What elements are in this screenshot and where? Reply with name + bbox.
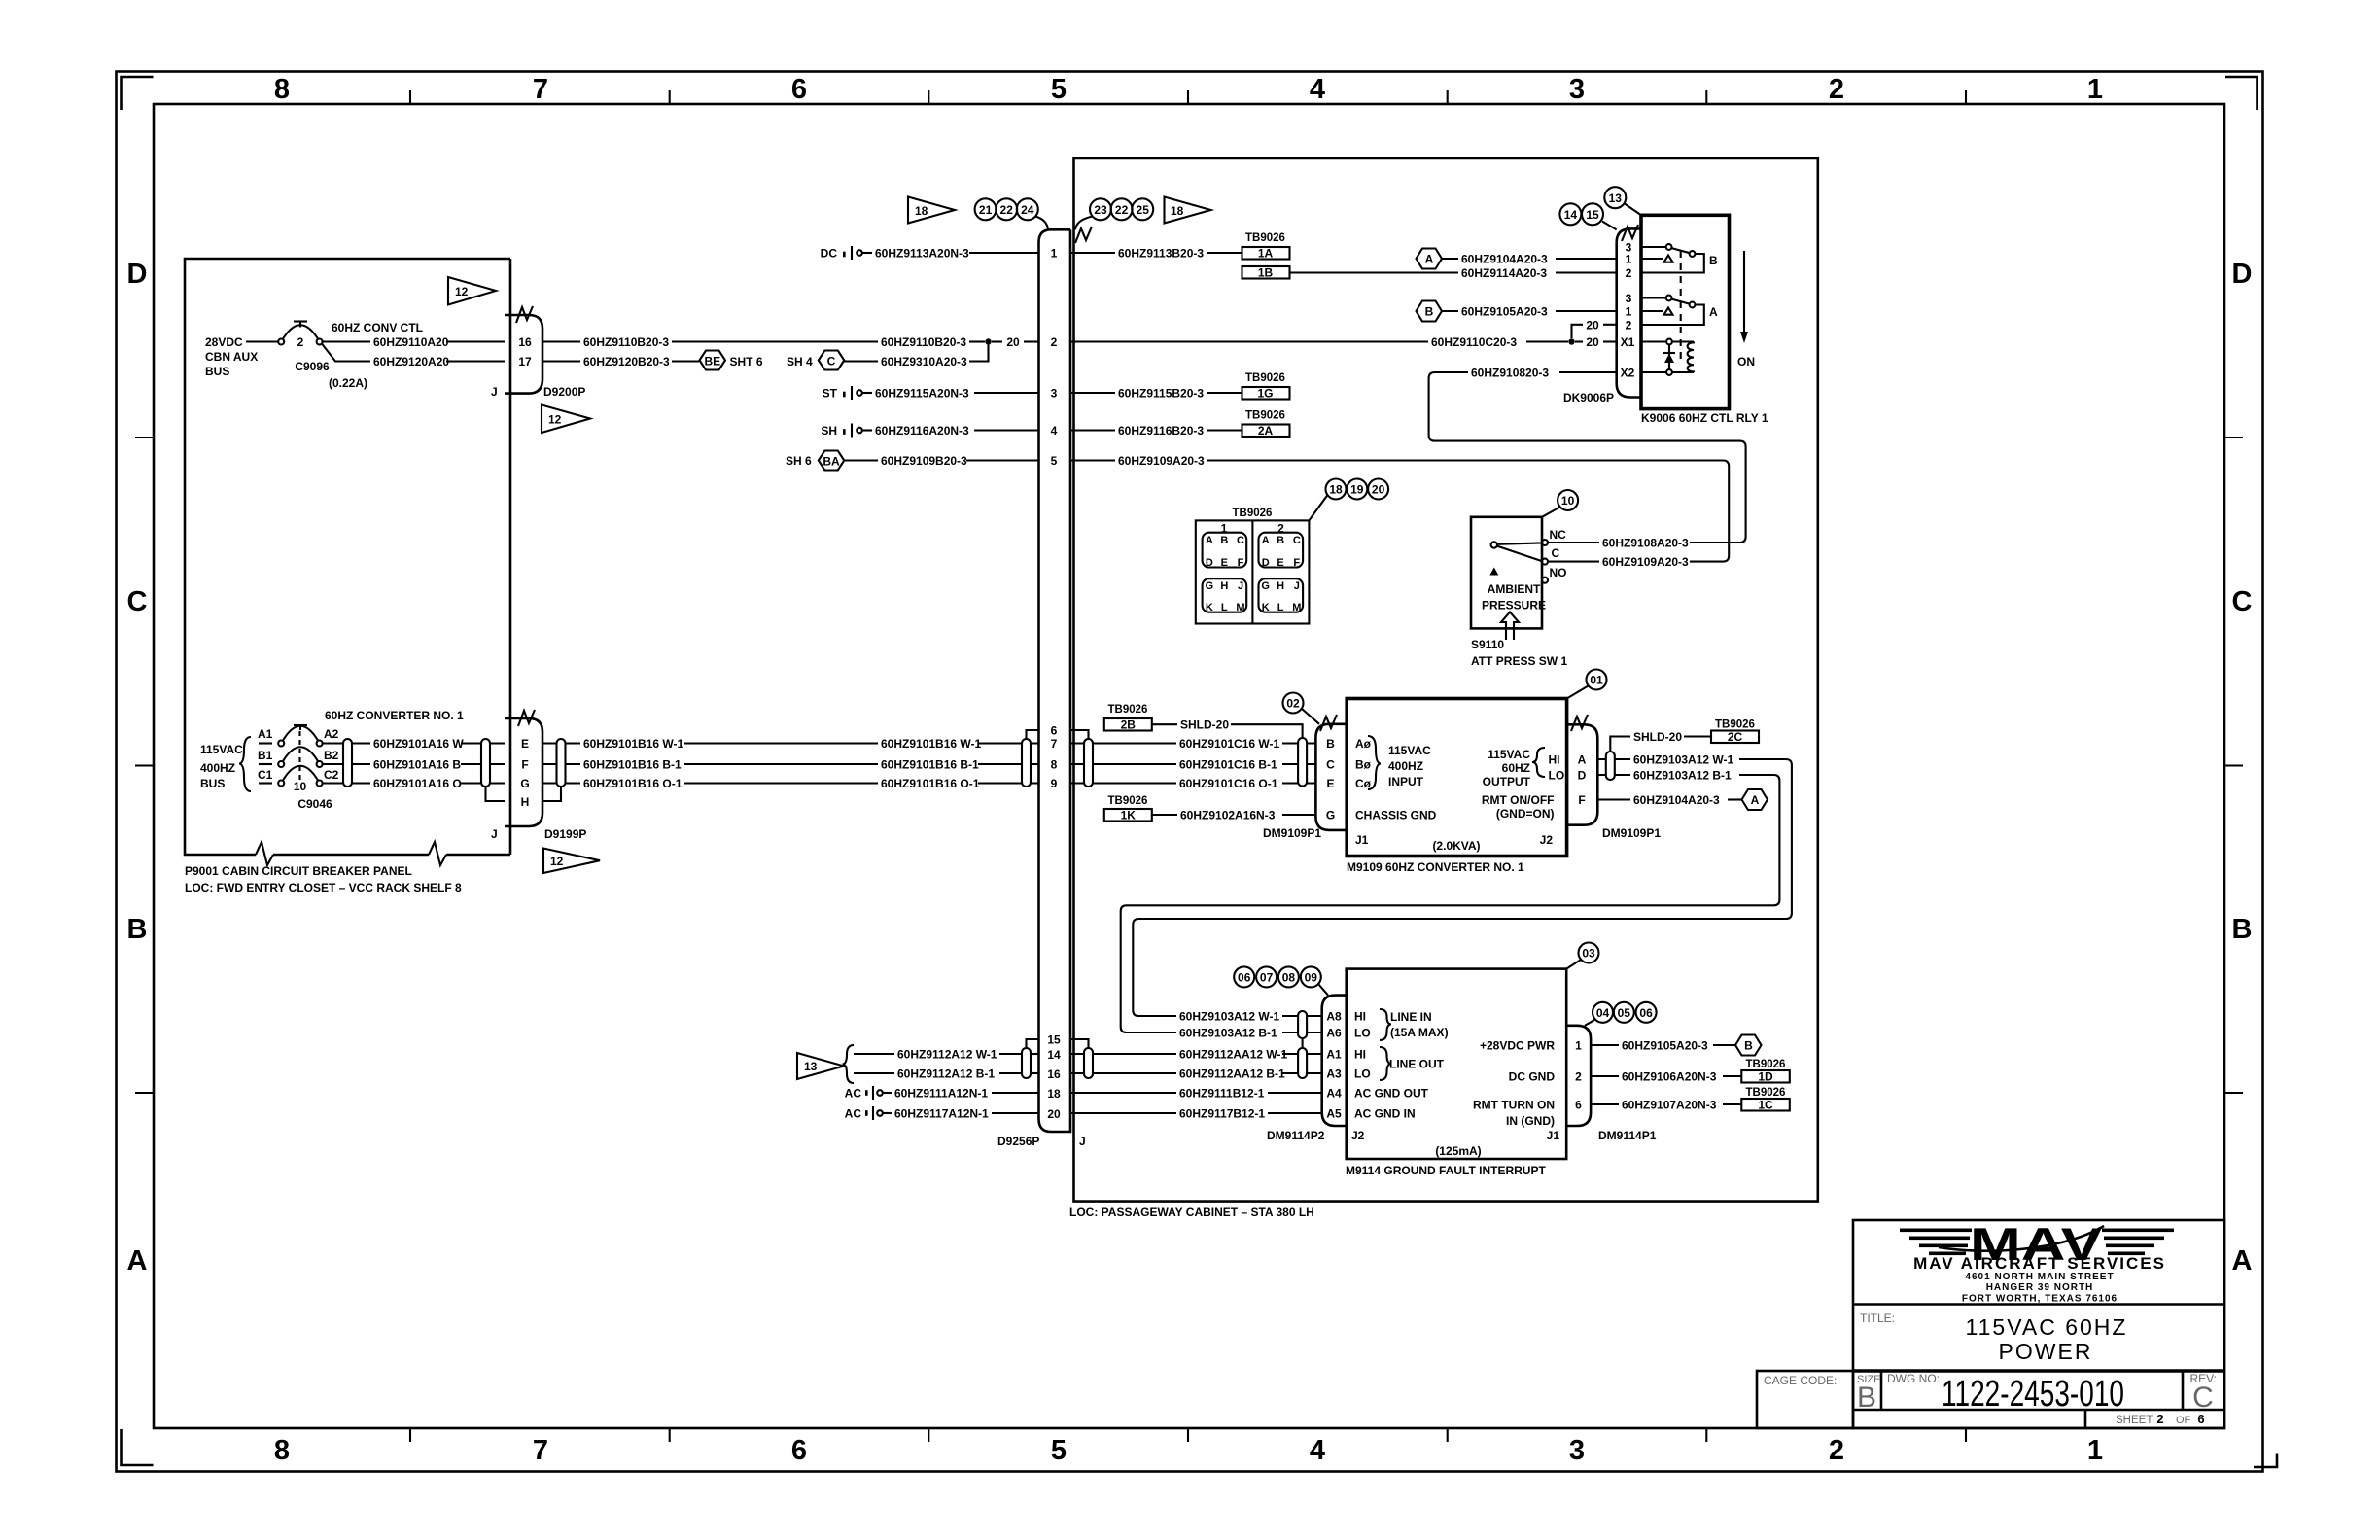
svg-text:60HZ9104A20-3: 60HZ9104A20-3 — [1461, 253, 1548, 266]
svg-text:LO: LO — [1354, 1067, 1371, 1081]
wire 60HZ9105A20-3 pin 1 to hexagon B — [1591, 1044, 1619, 1046]
svg-text:PRESSURE: PRESSURE — [1482, 599, 1546, 612]
break symbol bottom edge left — [256, 842, 273, 865]
svg-text:NC: NC — [1550, 528, 1567, 542]
flag 13 with brace — [797, 1045, 854, 1083]
ref circle 13 — [1604, 187, 1641, 215]
ref circles 18 19 20 — [1309, 479, 1388, 521]
svg-text:F: F — [1293, 557, 1300, 569]
svg-text:C9046: C9046 — [297, 797, 332, 811]
svg-text:18: 18 — [1171, 204, 1184, 218]
svg-text:2B: 2B — [1121, 718, 1137, 732]
relay contact B — [1641, 244, 1718, 272]
svg-text:60HZ9102A16N-3: 60HZ9102A16N-3 — [1180, 809, 1276, 822]
svg-text:6: 6 — [1051, 724, 1058, 738]
svg-text:(2.0KVA): (2.0KVA) — [1432, 839, 1480, 853]
svg-text:D: D — [1206, 557, 1213, 569]
svg-text:60HZ9101B16 B-1: 60HZ9101B16 B-1 — [583, 758, 682, 772]
wire 60HZ9106A20N-3 pin 2 to TB 1D — [1591, 1075, 1619, 1077]
svg-text:J: J — [1238, 580, 1243, 592]
svg-text:A: A — [2232, 1245, 2253, 1277]
svg-text:20: 20 — [1372, 483, 1385, 497]
wire 60HZ9103A12 B-1 output loop to GFI A6 — [1597, 774, 1630, 776]
svg-text:RMT ON/OFF: RMT ON/OFF — [1482, 793, 1555, 807]
svg-text:DC: DC — [821, 247, 838, 261]
svg-text:60HZ9120A20: 60HZ9120A20 — [373, 355, 449, 368]
svg-text:M: M — [1236, 602, 1244, 613]
svg-text:22: 22 — [1000, 203, 1014, 217]
svg-text:60HZ9103A12 W-1: 60HZ9103A12 W-1 — [1179, 1010, 1279, 1024]
title block outline — [1853, 1220, 2224, 1428]
svg-text:08: 08 — [1282, 971, 1296, 985]
cable shield capsule 8 (right of D9256P rows 14-16) — [1084, 1048, 1093, 1078]
svg-text:60HZ9116B20-3: 60HZ9116B20-3 — [1118, 424, 1204, 437]
svg-text:16: 16 — [518, 335, 532, 349]
svg-text:BUS: BUS — [205, 365, 229, 378]
svg-text:2C: 2C — [1728, 730, 1743, 744]
svg-text:05: 05 — [1618, 1006, 1631, 1020]
svg-text:20: 20 — [1006, 335, 1020, 349]
svg-text:+28VDC PWR: +28VDC PWR — [1480, 1039, 1555, 1053]
svg-text:1: 1 — [1626, 253, 1632, 266]
svg-text:B2: B2 — [324, 749, 339, 762]
svg-text:ST: ST — [822, 387, 838, 401]
svg-text:TB9026: TB9026 — [1245, 410, 1285, 422]
svg-text:15: 15 — [1586, 208, 1599, 222]
svg-text:TB9026: TB9026 — [1108, 704, 1148, 716]
svg-text:CBN AUX: CBN AUX — [205, 350, 258, 364]
svg-text:C: C — [1237, 535, 1244, 546]
svg-text:60HZ9120B20-3: 60HZ9120B20-3 — [583, 355, 670, 368]
svg-text:C: C — [1293, 535, 1301, 546]
shield drain jog to pin H left — [486, 787, 506, 801]
svg-text:SHEET: SHEET — [2116, 1415, 2152, 1426]
svg-text:60HZ9103A12 B-1: 60HZ9103A12 B-1 — [1633, 769, 1732, 783]
svg-text:60HZ9105A20-3: 60HZ9105A20-3 — [1461, 305, 1548, 319]
connector DK9006P — [1563, 225, 1641, 404]
svg-text:115VAC: 115VAC — [1487, 748, 1530, 761]
svg-text:60HZ9101C16 O-1: 60HZ9101C16 O-1 — [1179, 777, 1278, 790]
GFI interior labels — [1354, 1009, 1559, 1158]
svg-text:4: 4 — [1051, 424, 1058, 437]
svg-text:BA: BA — [822, 455, 840, 469]
junction node row 2 — [985, 338, 991, 344]
zone ticks bottom — [410, 1428, 1966, 1442]
ST source ref row 3 — [822, 386, 872, 401]
svg-text:HI: HI — [1549, 753, 1560, 767]
svg-text:B1: B1 — [258, 749, 273, 762]
svg-text:5: 5 — [1051, 1435, 1067, 1466]
relay contact A — [1641, 296, 1718, 325]
svg-text:60HZ9115B20-3: 60HZ9115B20-3 — [1118, 387, 1204, 401]
svg-text:60HZ9101A16 B: 60HZ9101A16 B — [373, 758, 461, 772]
svg-text:TB9026: TB9026 — [1746, 1059, 1786, 1070]
svg-text:13: 13 — [804, 1060, 818, 1073]
svg-text:J2: J2 — [1351, 1129, 1365, 1142]
svg-text:D: D — [1578, 769, 1587, 783]
svg-text:E: E — [1221, 557, 1228, 569]
svg-text:60HZ9113A20N-3: 60HZ9113A20N-3 — [875, 247, 969, 261]
SH 6 ref hexagon BA row 5 — [786, 451, 844, 471]
svg-text:60HZ9114A20-3: 60HZ9114A20-3 — [1461, 266, 1547, 280]
svg-text:OUTPUT: OUTPUT — [1483, 775, 1531, 788]
svg-text:J: J — [1079, 1135, 1086, 1148]
svg-text:DC GND: DC GND — [1509, 1070, 1556, 1084]
svg-text:60HZ9106A20N-3: 60HZ9106A20N-3 — [1622, 1070, 1717, 1084]
svg-text:HANGER 39 NORTH: HANGER 39 NORTH — [1986, 1282, 2094, 1293]
wire 60HZ9104A20-3 to hexagon A — [1597, 798, 1630, 800]
svg-text:H: H — [1220, 580, 1228, 592]
svg-text:TB9026: TB9026 — [1245, 232, 1285, 244]
svg-text:60HZ CONV CTL: 60HZ CONV CTL — [332, 321, 423, 334]
svg-text:SHLD-20: SHLD-20 — [1180, 718, 1229, 732]
DC source ref row 1 — [821, 246, 872, 261]
svg-text:24: 24 — [1021, 203, 1034, 217]
svg-text:3: 3 — [1626, 292, 1632, 305]
svg-text:DK9006P: DK9006P — [1563, 391, 1614, 404]
svg-text:G: G — [1261, 580, 1270, 592]
svg-text:13: 13 — [1609, 192, 1623, 205]
svg-text:23: 23 — [1094, 203, 1107, 217]
svg-text:M9109 60HZ CONVERTER NO. 1: M9109 60HZ CONVERTER NO. 1 — [1347, 860, 1524, 874]
wire 60HZ9110A20 row 16 — [323, 340, 370, 342]
svg-text:07: 07 — [1260, 971, 1274, 985]
rev box — [2182, 1371, 2185, 1410]
wire 60HZ9107A20N-3 pin 6 to TB 1C — [1591, 1103, 1619, 1105]
svg-text:1K: 1K — [1121, 809, 1137, 822]
wire 60HZ9109B20-3 row 5 — [844, 459, 878, 461]
relay linkage dashed — [1680, 251, 1682, 362]
P9001 cabin circuit breaker panel box — [185, 259, 510, 855]
svg-text:LOC: FWD ENTRY CLOSET – VCC RA: LOC: FWD ENTRY CLOSET – VCC RACK SHELF 8 — [185, 881, 462, 894]
svg-text:G: G — [1326, 809, 1335, 822]
svg-text:A5: A5 — [1326, 1107, 1342, 1121]
svg-text:L: L — [1277, 602, 1284, 613]
svg-text:12: 12 — [550, 855, 564, 868]
break symbol bottom edge right — [429, 842, 446, 865]
svg-text:60HZ9101B16 W-1: 60HZ9101B16 W-1 — [583, 737, 683, 751]
svg-text:A8: A8 — [1326, 1010, 1342, 1024]
svg-text:RMT TURN ON: RMT TURN ON — [1473, 1099, 1555, 1112]
svg-text:K: K — [1206, 602, 1213, 613]
connector D9199P — [491, 710, 586, 841]
svg-text:17: 17 — [518, 355, 532, 368]
cable shield capsule 4 (left of D9256P) — [1022, 739, 1031, 787]
svg-text:BUS: BUS — [200, 777, 225, 790]
wire bus to C9096 — [246, 340, 278, 342]
wires D9199P to D9256P rows 7/8/9 — [542, 744, 1039, 784]
svg-text:(125mA): (125mA) — [1435, 1144, 1481, 1158]
svg-text:115VAC: 115VAC — [1388, 744, 1431, 757]
svg-text:K9006 60HZ CTL RLY 1: K9006 60HZ CTL RLY 1 — [1641, 411, 1768, 425]
cable shield capsule 1 — [343, 739, 352, 787]
GFI box M9114 — [1347, 969, 1567, 1159]
svg-text:A2: A2 — [324, 727, 339, 741]
svg-text:18: 18 — [1329, 483, 1343, 497]
svg-text:B: B — [1425, 305, 1434, 319]
svg-text:3: 3 — [1569, 1435, 1585, 1466]
svg-text:5: 5 — [1051, 74, 1067, 105]
svg-text:60HZ9111A12N-1: 60HZ9111A12N-1 — [894, 1087, 988, 1101]
SHLD-20 wire with TB 2B — [1104, 704, 1303, 738]
svg-text:06: 06 — [1639, 1006, 1653, 1020]
svg-text:1: 1 — [2087, 74, 2103, 105]
svg-text:60HZ9101C16 B-1: 60HZ9101C16 B-1 — [1179, 758, 1277, 772]
svg-text:B: B — [1326, 737, 1335, 751]
svg-text:2: 2 — [1575, 1070, 1582, 1084]
svg-text:3: 3 — [1569, 74, 1585, 105]
sheet row — [2084, 1410, 2087, 1428]
svg-text:C: C — [127, 586, 148, 617]
svg-text:21: 21 — [979, 203, 993, 217]
svg-text:A3: A3 — [1326, 1067, 1342, 1081]
svg-text:LO: LO — [1549, 769, 1565, 783]
svg-text:5: 5 — [1051, 454, 1058, 468]
svg-text:2: 2 — [2156, 1412, 2163, 1426]
svg-text:7: 7 — [1051, 737, 1058, 751]
connector DM9109P1 output — [1567, 715, 1662, 840]
svg-text:AC: AC — [845, 1087, 862, 1101]
brace bus — [239, 737, 251, 791]
cable shield capsule GFI line out — [1298, 1048, 1307, 1078]
svg-text:L: L — [1221, 602, 1228, 613]
svg-text:60HZ9101A16 O: 60HZ9101A16 O — [373, 777, 462, 790]
svg-text:1G: 1G — [1257, 387, 1273, 401]
svg-text:60HZ9112A12 W-1: 60HZ9112A12 W-1 — [897, 1048, 997, 1062]
svg-text:1: 1 — [1626, 305, 1632, 319]
svg-text:2A: 2A — [1258, 424, 1274, 437]
TB9026 terminal 1G — [1242, 372, 1290, 401]
svg-text:115VAC 60HZ: 115VAC 60HZ — [1966, 1314, 2128, 1340]
svg-text:60HZ910820-3: 60HZ910820-3 — [1471, 367, 1549, 380]
svg-text:Bø: Bø — [1355, 758, 1372, 772]
svg-text:J: J — [491, 827, 498, 841]
svg-text:(0.22A): (0.22A) — [329, 376, 367, 390]
svg-text:G: G — [1206, 580, 1214, 592]
cable shield capsule GFI line in — [1298, 1011, 1307, 1038]
svg-text:1: 1 — [2087, 1435, 2103, 1466]
svg-text:B: B — [127, 914, 148, 945]
svg-text:14: 14 — [1047, 1048, 1061, 1062]
svg-text:J2: J2 — [1540, 833, 1554, 847]
wire 60HZ9105A20-3 to relay pin 1 lower — [1442, 310, 1458, 312]
svg-text:P9001 CABIN CIRCUIT BREAKER PA: P9001 CABIN CIRCUIT BREAKER PANEL — [185, 864, 412, 878]
svg-text:8: 8 — [274, 1435, 290, 1466]
svg-text:TB9026: TB9026 — [1715, 719, 1755, 731]
flag 12 at D9199P — [543, 849, 600, 874]
TB9026 terminal 1B — [1242, 266, 1290, 280]
svg-text:C: C — [1552, 546, 1560, 560]
corner trim mark bottom-right — [2254, 1454, 2277, 1468]
svg-text:19: 19 — [1350, 483, 1364, 497]
svg-text:OF: OF — [2176, 1415, 2191, 1426]
svg-text:NO: NO — [1550, 566, 1567, 579]
ref circle 03 — [1566, 943, 1598, 969]
svg-text:C: C — [827, 355, 836, 368]
circuit breaker C9046 — [258, 725, 339, 811]
svg-text:60HZ9112AA12 W-1: 60HZ9112AA12 W-1 — [1179, 1048, 1287, 1062]
cage code box — [1757, 1371, 1853, 1428]
svg-text:60HZ9117A12N-1: 60HZ9117A12N-1 — [894, 1107, 989, 1121]
svg-text:CAGE CODE:: CAGE CODE: — [1764, 1374, 1837, 1387]
svg-text:(GND=ON): (GND=ON) — [1496, 807, 1555, 821]
circuit breaker C9096 — [278, 322, 367, 391]
svg-text:J1: J1 — [1547, 1129, 1560, 1142]
svg-text:X2: X2 — [1621, 367, 1635, 380]
svg-text:M: M — [1292, 602, 1301, 613]
svg-text:04: 04 — [1596, 1006, 1610, 1020]
hexagon A ref output — [1742, 789, 1768, 810]
connector D9256P — [997, 227, 1092, 1148]
svg-text:SHLD-20: SHLD-20 — [1633, 730, 1682, 744]
stub 20 to relay pin 2 — [1572, 325, 1584, 338]
svg-text:60HZ9103A12 W-1: 60HZ9103A12 W-1 — [1633, 753, 1733, 767]
svg-text:B: B — [1709, 254, 1718, 267]
SH source ref row 4 — [821, 424, 872, 438]
svg-text:DWG NO:: DWG NO: — [1887, 1372, 1940, 1385]
svg-text:60HZ9116A20N-3: 60HZ9116A20N-3 — [875, 424, 969, 437]
svg-text:C2: C2 — [324, 768, 339, 782]
AC source ref row 18 — [845, 1086, 892, 1101]
wire 60HZ9120A20 row 17 — [322, 344, 370, 362]
ref circle 02 — [1283, 693, 1320, 724]
wire 60HZ9112A12 B-1 row 16 — [854, 1072, 894, 1074]
corner trim mark top-right — [2225, 77, 2257, 110]
svg-text:1B: 1B — [1258, 266, 1274, 280]
svg-text:60HZ9117B12-1: 60HZ9117B12-1 — [1179, 1107, 1265, 1121]
svg-text:1: 1 — [1051, 247, 1058, 261]
svg-text:B: B — [1857, 1382, 1876, 1414]
svg-text:F: F — [1238, 557, 1244, 569]
svg-text:C: C — [2192, 1382, 2214, 1414]
svg-text:115VAC: 115VAC — [200, 743, 243, 756]
svg-text:D9256P: D9256P — [997, 1135, 1039, 1148]
svg-text:60HZ9112AA12 B-1: 60HZ9112AA12 B-1 — [1179, 1067, 1285, 1081]
svg-text:E: E — [1326, 777, 1334, 790]
svg-text:28VDC: 28VDC — [205, 335, 243, 349]
zone ticks right — [2224, 437, 2243, 1093]
SHLD-20 output to TB 2C — [1610, 719, 1759, 752]
svg-text:AC GND IN: AC GND IN — [1354, 1107, 1416, 1121]
corner trim mark top-left — [122, 77, 154, 110]
ref circles 23 22 25 — [1075, 198, 1153, 229]
svg-text:02: 02 — [1286, 697, 1300, 711]
svg-text:POWER: POWER — [1999, 1339, 2093, 1364]
output shield capsule — [1606, 752, 1615, 780]
svg-text:C: C — [2232, 586, 2253, 617]
svg-text:Aø: Aø — [1355, 737, 1372, 751]
M9109 converter box — [1347, 699, 1566, 857]
svg-text:60HZ: 60HZ — [1502, 761, 1530, 775]
svg-text:60HZ9101B16 W-1: 60HZ9101B16 W-1 — [881, 737, 981, 751]
svg-text:DM9114P2: DM9114P2 — [1267, 1129, 1325, 1142]
svg-text:60HZ9109A20-3: 60HZ9109A20-3 — [1602, 555, 1689, 569]
svg-text:6: 6 — [1575, 1099, 1582, 1112]
svg-text:HI: HI — [1354, 1048, 1366, 1062]
wire 60HZ9120B20-3 row 17 to BE — [542, 360, 580, 362]
wire 60HZ9112A12 W-1 row 14 — [854, 1053, 894, 1055]
svg-text:60HZ9113B20-3: 60HZ9113B20-3 — [1118, 247, 1204, 261]
svg-text:18: 18 — [915, 204, 928, 218]
svg-text:400HZ: 400HZ — [200, 761, 235, 775]
ref circles 14 15 — [1559, 203, 1616, 229]
wires D9256P to GFI rows 14/16 — [1070, 1054, 1322, 1073]
pin 15 bridge stubs — [1027, 1039, 1039, 1048]
svg-text:6: 6 — [791, 1435, 807, 1466]
svg-text:J1: J1 — [1355, 833, 1369, 847]
svg-text:M9114 GROUND FAULT INTERRUPT: M9114 GROUND FAULT INTERRUPT — [1346, 1164, 1546, 1177]
wire 60HZ9103A12 W-1 output loop to GFI A8 — [1597, 758, 1630, 760]
wire row 2 60HZ9110C20-3 to X1 — [1070, 340, 1428, 342]
svg-text:60HZ9104A20-3: 60HZ9104A20-3 — [1633, 793, 1720, 807]
svg-text:G: G — [520, 777, 529, 790]
wire 60HZ9110B20-3 row 2 — [542, 340, 580, 342]
svg-text:60HZ9101A16 W: 60HZ9101A16 W — [373, 737, 464, 751]
svg-text:D: D — [127, 259, 148, 290]
svg-text:2: 2 — [1626, 319, 1632, 332]
svg-text:8: 8 — [274, 74, 290, 105]
connector DM9109P1 input — [1263, 715, 1347, 840]
svg-text:7: 7 — [533, 74, 548, 105]
svg-text:DM9114P1: DM9114P1 — [1598, 1129, 1657, 1142]
relay coil and diode — [1641, 339, 1694, 375]
svg-text:H: H — [521, 795, 530, 809]
svg-text:DM9109P1: DM9109P1 — [1263, 826, 1321, 840]
svg-text:18: 18 — [1047, 1087, 1061, 1101]
svg-text:F: F — [1578, 793, 1585, 807]
svg-text:15: 15 — [1047, 1033, 1061, 1047]
MAV logo — [1900, 1218, 2174, 1270]
svg-text:4601 NORTH MAIN STREET: 4601 NORTH MAIN STREET — [1965, 1272, 2114, 1282]
hexagon BE sheet ref — [700, 351, 763, 370]
svg-text:H: H — [1277, 580, 1284, 592]
connector D9200P — [491, 306, 585, 399]
svg-text:J: J — [1294, 580, 1300, 592]
ref circles 04 05 06 — [1585, 1002, 1657, 1026]
M9109 interior labels — [1355, 736, 1564, 853]
flag 12 upper at D9200P — [448, 277, 496, 305]
ON arrow — [1737, 251, 1755, 368]
svg-text:B: B — [1744, 1039, 1753, 1053]
svg-text:AC: AC — [845, 1107, 862, 1121]
svg-text:SH: SH — [821, 424, 837, 437]
ref circles 21 22 24 — [975, 198, 1048, 229]
size box — [1880, 1371, 1883, 1410]
svg-text:K: K — [1262, 602, 1270, 613]
svg-text:TB9026: TB9026 — [1245, 372, 1285, 384]
svg-text:(15A MAX): (15A MAX) — [1390, 1026, 1449, 1039]
svg-text:C1: C1 — [258, 768, 273, 782]
svg-text:A: A — [1425, 253, 1434, 266]
svg-text:20: 20 — [1586, 318, 1599, 332]
svg-text:4: 4 — [1310, 74, 1325, 105]
connector DM9114P2 — [1267, 996, 1365, 1142]
hexagon A ref — [1417, 249, 1443, 269]
inner border frame — [154, 104, 2224, 1428]
svg-text:1: 1 — [1575, 1039, 1582, 1053]
cable shield capsule 7 (left of D9256P rows 14-16) — [1022, 1048, 1031, 1078]
cable shield capsule 6 (at M9109 input) — [1298, 738, 1307, 787]
svg-text:60HZ9115A20N-3: 60HZ9115A20N-3 — [875, 387, 969, 401]
svg-text:A: A — [1206, 535, 1213, 546]
svg-text:12: 12 — [548, 413, 562, 427]
svg-text:60HZ9103A12 B-1: 60HZ9103A12 B-1 — [1179, 1027, 1277, 1040]
svg-text:60HZ9310A20-3: 60HZ9310A20-3 — [881, 355, 967, 368]
svg-text:ATT PRESS SW 1: ATT PRESS SW 1 — [1471, 654, 1567, 668]
svg-text:1A: 1A — [1258, 247, 1274, 261]
svg-text:06: 06 — [1238, 971, 1251, 985]
svg-text:C: C — [1326, 758, 1335, 772]
